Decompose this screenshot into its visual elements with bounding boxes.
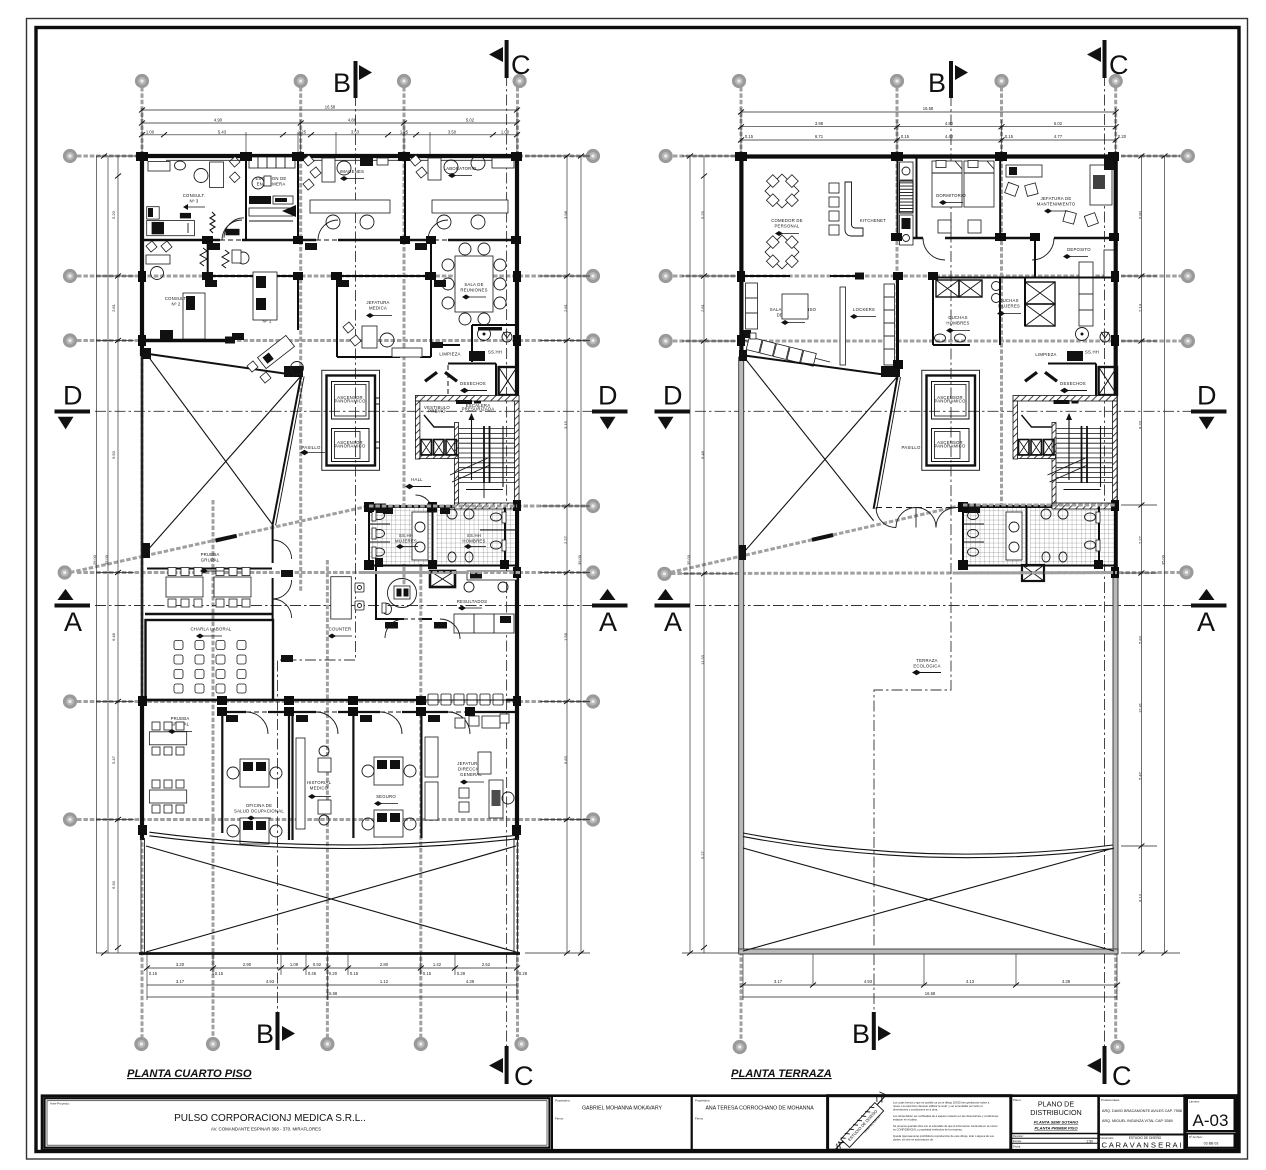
- exterior wall right: [515, 154, 519, 840]
- svg-text:B: B: [928, 68, 946, 98]
- svg-text:DORMITORIO: DORMITORIO: [936, 193, 966, 198]
- bathrooms band: [369, 495, 519, 567]
- rp gray overlays: [955, 571, 1117, 575]
- svg-text:PLANTA TERRAZA: PLANTA TERRAZA: [731, 1068, 832, 1080]
- svg-text:IMAGENES: IMAGENES: [340, 169, 364, 174]
- bottom curve: [149, 832, 515, 845]
- grid horizontal r5: [671, 573, 1181, 574]
- svg-text:DEPOSITO: DEPOSITO: [1067, 247, 1091, 252]
- svg-text:5.83: 5.83: [1137, 635, 1142, 644]
- svg-text:4.43: 4.43: [945, 134, 954, 139]
- svg-text:PANORAMICO: PANORAMICO: [934, 444, 966, 449]
- section line A horizontal: [95, 605, 618, 607]
- svg-text:LIMPIEZA: LIMPIEZA: [439, 352, 460, 357]
- window lines top wall: [166, 159, 512, 161]
- svg-text:2.81: 2.81: [563, 303, 568, 312]
- svg-text:Escala:: Escala:: [1013, 1139, 1022, 1143]
- structural columns right plan: [735, 152, 1119, 578]
- rp label arrows: [775, 200, 1068, 333]
- svg-text:Nº 3: Nº 3: [189, 199, 198, 204]
- rp right lot wall gray: [1113, 577, 1118, 953]
- svg-text:4.93: 4.93: [864, 979, 873, 984]
- marker B bottom: [256, 1012, 295, 1050]
- grid horizontal line 6: [77, 700, 586, 703]
- svg-text:PANORAMICO: PANORAMICO: [334, 399, 366, 404]
- svg-text:estacion en el plano.: estacion en el plano.: [893, 1118, 918, 1122]
- svg-text:DISTRIBUCION: DISTRIBUCION: [1030, 1108, 1082, 1117]
- rp duchas rooms: [933, 277, 1115, 345]
- svg-text:Profesionales:: Profesionales:: [1101, 1098, 1120, 1102]
- exterior wall top: [140, 154, 519, 158]
- svg-text:26.00: 26.00: [92, 554, 97, 565]
- svg-text:6.71: 6.71: [815, 134, 824, 139]
- svg-text:16.68: 16.68: [327, 991, 338, 996]
- treads: [459, 429, 515, 483]
- rp comedor partial wall: [741, 275, 790, 277]
- grid vertical line 2: [299, 87, 302, 592]
- grid horizontal line 3: [77, 339, 586, 342]
- svg-text:A: A: [64, 607, 82, 637]
- rp stairs: [1013, 396, 1117, 507]
- svg-text:COMEDOR DE: COMEDOR DE: [771, 218, 803, 223]
- svg-text:3.98: 3.98: [815, 121, 824, 126]
- svg-text:1:50: 1:50: [1086, 1140, 1093, 1144]
- rp band1 bottom wall: [898, 237, 1116, 239]
- grid slant r: [664, 505, 1115, 574]
- svg-text:5.27: 5.27: [700, 850, 705, 859]
- svg-text:Se propone guardar obra con el: Se propone guardar obra con el entendido…: [893, 1124, 998, 1128]
- rp deposito: [1035, 238, 1114, 326]
- marker B top: [333, 61, 372, 98]
- rp left lot wall gray: [739, 357, 744, 953]
- professionals box: [1099, 1096, 1185, 1151]
- svg-text:6.83: 6.83: [563, 755, 568, 764]
- rp bench row on slant: [743, 330, 830, 366]
- svg-text:4.13: 4.13: [966, 979, 975, 984]
- svg-text:4.39: 4.39: [466, 979, 475, 984]
- consultorio row1 furniture: [147, 157, 244, 238]
- svg-text:es CONFIDENCIAL y propiedad: es CONFIDENCIAL y propiedad intelectiva …: [893, 1128, 963, 1132]
- svg-text:MUJERES: MUJERES: [395, 539, 417, 544]
- svg-text:3.17: 3.17: [774, 979, 783, 984]
- row1 partition walls: [245, 156, 247, 240]
- bottom dims right plan: [743, 953, 1117, 1000]
- svg-text:C A R A V A N S E R A I: C A R A V A N S E R A I: [1102, 1141, 1182, 1150]
- section line A right plan: [695, 605, 1205, 607]
- svg-text:1.25: 1.25: [298, 129, 307, 134]
- grid slanted line: [70, 506, 586, 573]
- rp jefatura mantenimiento: [1005, 158, 1114, 227]
- svg-text:Ante-Proyecto:: Ante-Proyecto:: [50, 1102, 70, 1106]
- consult2 furniture: [146, 241, 207, 340]
- svg-text:3.20: 3.20: [176, 962, 185, 967]
- svg-text:1.00: 1.00: [501, 129, 510, 134]
- svg-text:0.28: 0.28: [457, 971, 466, 976]
- svg-text:JEFATURA: JEFATURA: [366, 300, 389, 305]
- svg-text:Revisión:: Revisión:: [1013, 1134, 1024, 1138]
- svg-text:16.58: 16.58: [923, 106, 934, 111]
- door arcs row1: [222, 220, 448, 240]
- svg-text:PANORAMICO: PANORAMICO: [334, 444, 366, 449]
- svg-text:OFICINA DE: OFICINA DE: [246, 803, 272, 808]
- montacargas X boxes: [421, 440, 457, 456]
- consult1 furniture: [222, 250, 304, 383]
- svg-text:B: B: [256, 1019, 274, 1049]
- svg-text:3.53: 3.53: [351, 129, 360, 134]
- grid circles top: [59, 76, 598, 1050]
- svg-text:PLANTA PRIMER PISO: PLANTA PRIMER PISO: [1034, 1126, 1078, 1131]
- svg-text:MEDICA: MEDICA: [369, 306, 387, 311]
- section line D right plan: [695, 410, 1205, 412]
- marker B top right plan: [928, 61, 968, 98]
- svg-text:ARQ. DAVID BRACAMONTE AVILES: ARQ. DAVID BRACAMONTE AVILES CAP. 7558: [1102, 1109, 1182, 1113]
- svg-text:Firma:: Firma:: [695, 1117, 704, 1121]
- grid vertical line 5: [212, 500, 215, 1037]
- svg-text:0.45: 0.45: [308, 971, 317, 976]
- waiting chairs row: [428, 694, 503, 705]
- svg-text:2.27: 2.27: [563, 535, 568, 544]
- svg-text:0.15: 0.15: [149, 971, 158, 976]
- grid vertical line r1: [740, 87, 743, 1040]
- svg-text:HOMBRES: HOMBRES: [946, 321, 969, 326]
- svg-text:Fecha:: Fecha:: [1013, 1144, 1021, 1148]
- rp desechos: [1024, 364, 1096, 397]
- svg-text:12.41: 12.41: [1137, 702, 1142, 713]
- marker D right rp: [1191, 381, 1227, 430]
- svg-text:35.00: 35.00: [577, 554, 582, 565]
- svg-text:4.39: 4.39: [1062, 979, 1071, 984]
- svg-text:COUNTER: COUNTER: [329, 627, 352, 632]
- svg-text:DUCHAS: DUCHAS: [948, 315, 967, 320]
- svg-text:DESECHOS: DESECHOS: [460, 381, 486, 386]
- jefatura medica furniture: [343, 300, 422, 357]
- svg-text:C: C: [1112, 1061, 1132, 1091]
- slant black ticks: [216, 536, 237, 541]
- stairs: [415, 396, 519, 507]
- grid vertical line 7: [419, 560, 422, 1037]
- grid vertical line r2: [896, 87, 899, 380]
- svg-text:Plano:: Plano:: [1013, 1098, 1022, 1102]
- section line C vertical: [506, 75, 508, 1062]
- rp exterior right wall: [1114, 154, 1118, 577]
- svg-text:4.93: 4.93: [266, 979, 275, 984]
- marker C bottom right plan: [1087, 1046, 1132, 1091]
- charla laboral room: [146, 620, 274, 700]
- plano box: [1011, 1096, 1099, 1151]
- svg-text:35.00: 35.00: [1161, 554, 1166, 565]
- svg-text:03 BB 03: 03 BB 03: [1204, 1142, 1219, 1146]
- svg-text:MUJERES: MUJERES: [998, 304, 1020, 309]
- jefatura medica walls: [337, 275, 431, 277]
- label arrows: [168, 173, 486, 821]
- svg-text:PRESURIZADA: PRESURIZADA: [462, 406, 495, 411]
- svg-text:CONSULT.: CONSULT.: [183, 193, 206, 198]
- svg-text:PRUEBA: PRUEBA: [201, 552, 220, 557]
- svg-text:3.17: 3.17: [176, 979, 185, 984]
- svg-text:LIMPIEZA: LIMPIEZA: [1035, 352, 1056, 357]
- svg-text:1.12: 1.12: [380, 979, 389, 984]
- svg-text:B: B: [852, 1019, 870, 1049]
- svg-text:ANA TERESA CORROCHANO DE MOHAN: ANA TERESA CORROCHANO DE MOHANNA: [705, 1106, 814, 1112]
- grid horizontal r2: [673, 275, 1181, 278]
- svg-text:6.80: 6.80: [1137, 210, 1142, 219]
- rp sala descanso: [746, 283, 817, 329]
- sala reuniones furniture: [442, 243, 506, 325]
- svg-text:JEFATURA DE: JEFATURA DE: [1041, 196, 1072, 201]
- marker D left rp: [655, 381, 691, 430]
- marker C top right plan: [1087, 40, 1129, 80]
- marker C bottom: [489, 1046, 534, 1091]
- svg-text:9.50: 9.50: [111, 450, 116, 459]
- svg-text:CHARLA LABORAL: CHARLA LABORAL: [190, 627, 231, 632]
- rp lockers: [840, 284, 895, 365]
- corridor wall below void: [272, 525, 274, 563]
- svg-text:16.68: 16.68: [925, 991, 936, 996]
- svg-text:A: A: [599, 607, 617, 637]
- svg-text:Los cotas hemos y que se pos: Los cotas hemos y que se posible ca ca s…: [893, 1101, 990, 1105]
- svg-text:D: D: [663, 381, 683, 411]
- svg-text:SS.HH: SS.HH: [467, 533, 481, 538]
- svg-text:B: B: [333, 68, 351, 98]
- svg-text:SS.HH: SS.HH: [488, 350, 502, 355]
- svg-text:1.25: 1.25: [400, 129, 409, 134]
- svg-text:KITCHENET: KITCHENET: [860, 218, 886, 223]
- rp exterior left wall upper: [739, 154, 743, 357]
- svg-text:2.90: 2.90: [243, 962, 252, 967]
- svg-text:GABRIEL MOHANNA MOKAVARY: GABRIEL MOHANNA MOKAVARY: [582, 1106, 662, 1112]
- lot edge right bottom: [513, 838, 515, 953]
- svg-text:0.15: 0.15: [423, 971, 432, 976]
- triaje room: [376, 566, 460, 639]
- prueba grupal upper: [145, 552, 272, 614]
- svg-text:0.92: 0.92: [313, 962, 322, 967]
- svg-text:C: C: [514, 1061, 534, 1091]
- bottom wall: [139, 952, 520, 955]
- svg-text:C: C: [511, 50, 531, 80]
- rp bathrooms band: [963, 503, 1117, 581]
- svg-text:2.14: 2.14: [1137, 303, 1142, 312]
- marker B bottom right plan: [852, 1012, 891, 1050]
- svg-text:PANORAMICO: PANORAMICO: [934, 399, 966, 404]
- marker D right: [592, 381, 628, 430]
- svg-text:SS.HH: SS.HH: [1085, 350, 1099, 355]
- svg-text:DUCHAS: DUCHAS: [999, 298, 1018, 303]
- svg-text:PLANTA SEMI SOTANO: PLANTA SEMI SOTANO: [1034, 1120, 1079, 1125]
- rp dormitorio: [932, 161, 994, 234]
- svg-text:0.15: 0.15: [215, 971, 224, 976]
- svg-text:Lámina:: Lámina:: [1189, 1100, 1200, 1104]
- grid circles right plan: [659, 76, 1194, 1053]
- elevators block: [322, 370, 380, 470]
- svg-text:3.15: 3.15: [563, 420, 568, 429]
- svg-text:4.88: 4.88: [348, 118, 357, 123]
- svg-text:A: A: [1197, 607, 1215, 637]
- svg-text:3.50: 3.50: [448, 129, 457, 134]
- rp kitchen counter/fridge: [900, 156, 917, 245]
- svg-text:0.20: 0.20: [1118, 134, 1127, 139]
- svg-text:MEDICO: MEDICO: [310, 786, 329, 791]
- svg-text:TERRAZA: TERRAZA: [916, 658, 937, 663]
- svg-text:MANTENIMIENTO: MANTENIMIENTO: [1037, 202, 1076, 207]
- svg-text:11.33: 11.33: [700, 654, 705, 664]
- grid horizontal line 1: [77, 155, 586, 158]
- svg-text:HISTORIAL: HISTORIAL: [307, 780, 332, 785]
- consult1 top wall: [208, 275, 298, 277]
- svg-text:8.13: 8.13: [1137, 893, 1142, 902]
- rp bottom X: [743, 848, 1114, 951]
- rp bottom lot wall gray: [739, 949, 1118, 954]
- void polygon: [142, 348, 304, 558]
- svg-text:2.81: 2.81: [111, 303, 116, 312]
- rp dormitorio right wall: [999, 156, 1001, 238]
- svg-text:A-03: A-03: [1193, 1111, 1229, 1130]
- svg-text:16.58: 16.58: [325, 105, 336, 110]
- svg-text:Los obras deben ser verifica: Los obras deben ser verificadas de a esq…: [893, 1114, 999, 1118]
- svg-text:0.15: 0.15: [1005, 134, 1014, 139]
- owner box 2: [692, 1096, 828, 1151]
- bottom dimension lines: [147, 953, 517, 1000]
- svg-text:4.80: 4.80: [945, 121, 954, 126]
- rp bar counter: [845, 182, 863, 236]
- svg-text:2.81: 2.81: [700, 303, 705, 312]
- svg-text:35.00: 35.00: [686, 554, 691, 565]
- svg-text:0.28: 0.28: [519, 971, 528, 976]
- owner box 1: [552, 1096, 692, 1151]
- section line B right jogged: [874, 95, 951, 1015]
- counter: [328, 577, 364, 639]
- corridor wall x298: [297, 276, 299, 330]
- grid horizontal r3: [673, 340, 1181, 343]
- duct X box upper: [499, 367, 517, 395]
- svg-text:SS.HH: SS.HH: [399, 533, 413, 538]
- glass line behind chairs: [424, 699, 506, 701]
- svg-text:PASILLO: PASILLO: [902, 445, 921, 450]
- marker A right: [592, 589, 628, 637]
- lot edge left bottom: [140, 838, 142, 953]
- exterior wall left lower: [140, 700, 144, 840]
- marker A left rp: [655, 589, 691, 637]
- svg-text:ESTUDIO DE DISEÑO: ESTUDIO DE DISEÑO: [1129, 1135, 1162, 1140]
- grid vertical line 4: [516, 87, 519, 1037]
- rp kitchen wall: [897, 156, 899, 238]
- right vertical dims right plan: [1121, 156, 1180, 953]
- svg-text:CONSULT.: CONSULT.: [165, 296, 188, 301]
- svg-text:6.30: 6.30: [111, 880, 116, 889]
- svg-text:8.20: 8.20: [1137, 420, 1142, 429]
- svg-text:ECOLOGICA: ECOLOGICA: [913, 664, 940, 669]
- svg-text:4.90: 4.90: [214, 118, 223, 123]
- svg-text:HOMBRES: HOMBRES: [462, 539, 485, 544]
- svg-text:REUNIONES: REUNIONES: [460, 288, 487, 293]
- desechos room: [424, 364, 496, 397]
- svg-text:dimensiones y condiciones en: dimensiones y condiciones en a obra.: [893, 1108, 938, 1112]
- exterior wall left upper: [140, 154, 144, 356]
- rp elevators: [922, 370, 980, 470]
- svg-text:Firma:: Firma:: [555, 1117, 564, 1121]
- svg-text:resua. Los asimismo deveran: resua. Los asimismo deveran edificar la …: [893, 1104, 983, 1108]
- svg-text:6.48: 6.48: [700, 450, 705, 459]
- svg-text:D: D: [1197, 381, 1217, 411]
- svg-text:5.02: 5.02: [1054, 121, 1063, 126]
- marker D left: [55, 381, 91, 430]
- svg-text:5.47: 5.47: [111, 755, 116, 764]
- LEFT PLAN: [55, 40, 628, 1091]
- grid vertical line 1: [141, 87, 144, 1037]
- grid horizontal r1: [673, 155, 1181, 158]
- structural columns left plan: [136, 152, 522, 835]
- left vertical dimension lines: [96, 156, 142, 953]
- svg-text:2.27: 2.27: [1137, 535, 1142, 544]
- svg-text:0.15: 0.15: [350, 971, 359, 976]
- svg-text:HALL: HALL: [411, 477, 423, 482]
- title block outer band: [42, 1096, 1237, 1151]
- svg-text:SEGURO: SEGURO: [376, 794, 396, 799]
- lamina box: [1185, 1096, 1237, 1151]
- svg-text:1.58: 1.58: [563, 632, 568, 641]
- top dimension lines: [142, 108, 517, 156]
- svg-text:PASILLO: PASILLO: [302, 445, 321, 450]
- svg-text:Propietario:: Propietario:: [695, 1099, 711, 1103]
- svg-text:Nº 2: Nº 2: [171, 302, 180, 307]
- svg-text:5.25: 5.25: [700, 210, 705, 219]
- svg-text:5.02: 5.02: [466, 118, 475, 123]
- grid horizontal line 7: [77, 818, 586, 821]
- row1 bottom wall segments: [142, 239, 517, 242]
- section line B jogged: [278, 95, 356, 1015]
- top dims right plan: [741, 108, 1116, 156]
- rp void polygon: [739, 350, 901, 560]
- svg-text:D: D: [63, 381, 83, 411]
- svg-text:C: C: [1109, 50, 1129, 80]
- RIGHT PLAN: [655, 40, 1227, 1091]
- svg-text:4.77: 4.77: [1054, 134, 1063, 139]
- grid vertical line 6: [326, 560, 329, 1037]
- grid vertical line r4: [1114, 87, 1117, 1040]
- rp comedor tables: [757, 165, 808, 277]
- grid vertical line 3: [403, 87, 406, 592]
- section line C right: [1104, 75, 1106, 1062]
- svg-text:Nº Archivo:: Nº Archivo:: [1189, 1135, 1203, 1139]
- svg-text:6.48: 6.48: [111, 632, 116, 641]
- exterior wall left mid (void edge): [141, 356, 144, 700]
- rp exterior top wall: [739, 154, 1118, 158]
- card readers: [205, 243, 450, 722]
- svg-text:35.00: 35.00: [104, 554, 109, 565]
- svg-text:AV. COMANDANTE ESPINAR 368 -: AV. COMANDANTE ESPINAR 368 - 370. MIRAFL…: [211, 1127, 321, 1132]
- left vertical dims right plan: [682, 156, 738, 953]
- svg-text:2.80: 2.80: [380, 962, 389, 967]
- svg-text:PREVIO: PREVIO: [428, 408, 446, 413]
- svg-text:Queda rigurosamente prohibid: Queda rigurosamente prohibida la reprodu…: [893, 1134, 995, 1138]
- svg-text:DESECHOS: DESECHOS: [1060, 381, 1086, 386]
- svg-text:1.42: 1.42: [433, 962, 442, 967]
- svg-text:SALUD OCUPACIONAL: SALUD OCUPACIONAL: [234, 809, 284, 814]
- svg-text:PLANTA CUARTO PISO: PLANTA CUARTO PISO: [127, 1068, 252, 1080]
- marker A left: [55, 589, 91, 637]
- sala reuniones toilet band: [472, 324, 517, 326]
- logo / legal box: [828, 1096, 1011, 1151]
- bottom X brace: [146, 846, 516, 952]
- svg-text:Desarrollo:: Desarrollo:: [1101, 1136, 1115, 1140]
- svg-text:D: D: [598, 381, 618, 411]
- svg-text:LOCKERS: LOCKERS: [853, 307, 875, 312]
- resultados zone: [430, 571, 517, 633]
- svg-text:1.09: 1.09: [290, 962, 299, 967]
- svg-text:Propietario:: Propietario:: [555, 1099, 571, 1103]
- rp duct X: [1099, 367, 1117, 395]
- svg-text:5.20: 5.20: [111, 210, 116, 219]
- svg-text:A: A: [664, 607, 682, 637]
